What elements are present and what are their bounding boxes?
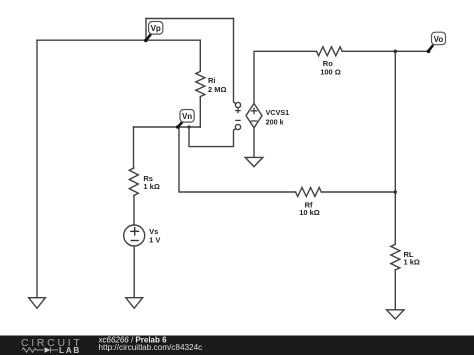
svg-text:1 kΩ: 1 kΩ xyxy=(404,257,420,266)
wire VCVS output top xyxy=(254,51,317,103)
resistor Rf xyxy=(296,188,322,197)
wire Ro to Vo xyxy=(342,50,428,52)
footer bar xyxy=(0,336,474,355)
svg-text:Ri: Ri xyxy=(208,76,216,85)
wire top horizontal Vp net xyxy=(37,39,200,41)
wire VCVS plus input elbow xyxy=(234,19,236,104)
wire Rs to Vs xyxy=(133,196,135,226)
wire VCVS minus input xyxy=(189,127,236,147)
node Vo flag xyxy=(427,32,446,53)
resistor RL xyxy=(391,244,400,270)
wire Ri top lead xyxy=(199,40,201,71)
vcvs VCVS1 diamond xyxy=(246,104,262,128)
VCVS1 minus input terminal xyxy=(235,124,240,129)
node Vp flag xyxy=(144,22,163,43)
svg-text:1 kΩ: 1 kΩ xyxy=(143,182,159,191)
node Vn flag xyxy=(176,110,194,129)
wire Vs bottom lead xyxy=(133,246,135,298)
svg-text:Vn: Vn xyxy=(182,112,192,121)
ground under VCVS1 xyxy=(245,157,263,166)
svg-text:Vp: Vp xyxy=(151,24,161,33)
junction Ro output node xyxy=(394,50,398,54)
wire Rs top lead xyxy=(133,127,135,168)
wire VCVS bottom lead xyxy=(253,128,255,158)
svg-text:http://circuitlab.com/c84324c: http://circuitlab.com/c84324c xyxy=(99,343,203,352)
resistor Ro xyxy=(317,47,343,56)
VCVS1 internal plus minus xyxy=(251,108,258,121)
ground right under RL xyxy=(387,310,405,319)
wire Vn horizontal net xyxy=(134,126,201,128)
svg-text:LAB: LAB xyxy=(59,346,81,355)
wire Vp node riser xyxy=(145,19,147,41)
wire left tall ground leg xyxy=(36,40,38,298)
wire Rf to output node xyxy=(321,191,395,193)
CircuitLab logo xyxy=(21,337,82,355)
svg-text:200 k: 200 k xyxy=(266,118,284,127)
junction at Vn feedback branch xyxy=(187,125,190,128)
wire RL bottom lead xyxy=(394,270,396,310)
VCVS1 plus input terminal xyxy=(235,102,240,107)
svg-text:1 V: 1 V xyxy=(149,235,160,244)
resistor Rs xyxy=(129,168,138,196)
voltage source Vs xyxy=(124,225,145,246)
svg-text:10 kΩ: 10 kΩ xyxy=(299,208,320,217)
wire Vn to feedback xyxy=(179,127,296,192)
ground under Vs xyxy=(126,298,143,309)
svg-text:2 MΩ: 2 MΩ xyxy=(208,85,227,94)
resistor Ri xyxy=(196,71,205,96)
Vs plus minus marks xyxy=(130,227,139,241)
junction Rf output node xyxy=(394,190,398,194)
wire Ri bottom lead xyxy=(199,97,201,127)
ground left xyxy=(29,298,46,309)
wire top rail Vp to VCVS plus input xyxy=(146,18,234,20)
VCVS1 input plus minus marks xyxy=(235,108,240,121)
wire right output branch down xyxy=(394,51,396,244)
svg-text:VCVS1: VCVS1 xyxy=(266,108,290,117)
svg-text:Vo: Vo xyxy=(434,35,444,44)
svg-text:100 Ω: 100 Ω xyxy=(320,68,341,77)
